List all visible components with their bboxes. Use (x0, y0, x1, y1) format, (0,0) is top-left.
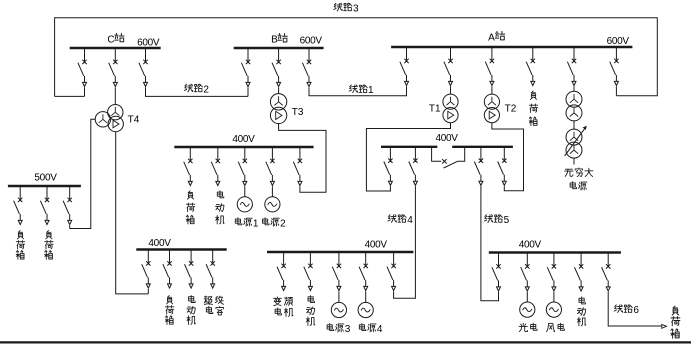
switch BM2 (304, 252, 313, 291)
bus 400V A-station right section (452, 146, 513, 148)
label line-6 (xianlu6) (614, 305, 622, 313)
svg-text:2: 2 (203, 84, 209, 95)
switch A6 (610, 47, 619, 86)
switch BL3 (185, 250, 194, 289)
svg-text:3: 3 (345, 324, 351, 335)
switch BM4 (359, 252, 368, 291)
label fuhexiang under F1 (17, 231, 23, 239)
switch M4 (266, 147, 275, 186)
switch C2 (109, 48, 118, 87)
wire BR2 to PV source (526, 292, 528, 302)
label chaoji-dianrong (supercapacitor) under BL4 (204, 296, 212, 304)
svg-text:1: 1 (253, 218, 259, 229)
svg-text:400V: 400V (232, 134, 255, 145)
switch BM1 (277, 252, 286, 291)
AC source dianyuan4 (358, 302, 373, 317)
label fuhexiang under BL2 (167, 296, 173, 304)
regulation arrow across infinite-source circles (565, 128, 586, 156)
wire BL1 to T4 (147, 289, 149, 294)
wire line-6 from BR5 (608, 292, 661, 326)
switch BL1 (142, 250, 151, 289)
wire A6 to line-3 right side (615, 86, 617, 95)
switch B3 (302, 48, 311, 87)
bus 400V bottom-right (489, 251, 621, 253)
switch BR1 (492, 253, 501, 292)
label diandongji under BM2 (308, 296, 315, 303)
label line-2 (xianlu2) (184, 84, 192, 92)
label fuhexiang under F2 (46, 231, 52, 239)
switch BR2 (521, 253, 530, 292)
wire A2 to T1 (450, 86, 452, 94)
switch BM5 (387, 252, 396, 291)
AC source dianyuan1 (237, 197, 252, 212)
wire T4 left winding to 500V bus switch F3 (70, 119, 96, 228)
AC source guangdian (PV) (520, 302, 535, 317)
bottom border rule (0, 341, 691, 343)
wire line-2 C station to B station (146, 87, 249, 96)
label fengdian (547, 324, 555, 332)
svg-text:6: 6 (633, 305, 639, 316)
switch A1 (400, 47, 409, 86)
wire line-1 B station to A station (309, 86, 407, 95)
label dianyuan4 (359, 324, 366, 331)
switch M3 (238, 147, 247, 186)
svg-text:4: 4 (377, 324, 383, 335)
wire T1 to AL1 (366, 123, 450, 191)
wire C1 to line-3 (84, 87, 86, 96)
svg-text:400V: 400V (365, 240, 388, 251)
svg-text:600V: 600V (300, 35, 323, 46)
switch AL2 (line-4 feeder) (409, 147, 418, 186)
switch AL1 (384, 147, 393, 186)
label line-4 (xianlu4) (388, 215, 396, 223)
switch B1 (241, 48, 250, 87)
switch M5 (293, 147, 302, 186)
wire A3 to T2 (491, 86, 493, 94)
transformer T2 (484, 94, 499, 123)
switch F2 (40, 186, 49, 225)
svg-text:400V: 400V (519, 239, 542, 250)
svg-text:A: A (488, 32, 495, 43)
bus A station 600V (391, 46, 632, 49)
bus 400V A-station left section (381, 146, 437, 148)
svg-text:T4: T4 (128, 115, 140, 126)
AC source fengdian (wind) (546, 302, 561, 317)
label dianyuan2 (262, 218, 269, 225)
label dianyuan3 (327, 324, 334, 331)
wire T3 to 400V middle bus switch M5 (279, 123, 326, 192)
svg-text:1: 1 (368, 85, 374, 96)
bus C station 600V (70, 47, 161, 50)
transformer T3 (270, 94, 286, 124)
svg-text:T3: T3 (292, 107, 304, 118)
svg-text:500V: 500V (34, 172, 57, 183)
svg-text:T1: T1 (429, 103, 441, 114)
bus tie switch (horizontal) (432, 148, 442, 161)
bus 400V middle (174, 146, 313, 148)
label wuqiongda (infinite) (565, 169, 573, 176)
label line-1 (xianlu1) (349, 85, 357, 93)
switch M1 (184, 147, 193, 186)
wire line-3 top run from C station to A station (55, 18, 658, 97)
switch A3 (485, 47, 494, 86)
label dianyuan1 (235, 218, 242, 225)
svg-text:400V: 400V (436, 133, 459, 144)
switch M2 (211, 147, 220, 186)
switch C3 (139, 48, 148, 87)
svg-text:400V: 400V (148, 238, 171, 249)
arrow line-6 end (662, 324, 667, 328)
label diandongji under BR4 (579, 297, 586, 304)
switch A2 (444, 47, 453, 86)
switch BR4 (575, 253, 584, 292)
svg-text:600V: 600V (137, 37, 160, 48)
svg-text:4: 4 (407, 215, 413, 226)
svg-text:C: C (107, 34, 114, 45)
switch BR5 (602, 253, 611, 292)
wire F3 to T4 left winding (69, 225, 71, 228)
transformer T1 (443, 94, 458, 123)
wire M4 to source-2 (271, 186, 273, 197)
svg-text:3: 3 (353, 3, 359, 14)
bus 500V (8, 185, 81, 187)
wire BR3 to wind source (553, 292, 555, 302)
svg-text:5: 5 (504, 215, 510, 226)
label line-5 (xianlu5) (484, 215, 492, 223)
wire T2 to AR2 (492, 123, 524, 191)
infinite source transformer stack (566, 91, 582, 107)
label dianyuan (source) (570, 182, 577, 189)
switch A4 (526, 47, 535, 86)
label fuhexiang (line-6 load) (672, 306, 679, 315)
switch A5 (567, 47, 576, 86)
wire BM4 to source-4 (365, 291, 367, 302)
svg-text:T2: T2 (505, 103, 517, 114)
AC source dianyuan2 (265, 197, 280, 212)
switch BM3 (332, 252, 341, 291)
wire B2 to T3 (278, 87, 280, 93)
switch BL2 (163, 250, 172, 289)
svg-text:600V: 600V (607, 36, 630, 47)
bus B station 600V (234, 47, 324, 50)
label diandongji under BL3 (189, 295, 196, 302)
bus 400V bottom-middle (267, 251, 413, 253)
label diandongji (motor) under M2 (217, 191, 224, 198)
label fuhexiang (load box) under M1 (187, 191, 193, 199)
switch AR2 (498, 147, 507, 186)
switch F3 (63, 186, 72, 225)
label bianpin-dianji (VFD motor) under BM1 (273, 297, 281, 306)
svg-text:B: B (271, 35, 278, 46)
wire M3 to source-1 (244, 186, 246, 197)
bus 400V bottom-left (136, 248, 226, 250)
label line-3 (xianlu3) (334, 3, 342, 11)
switch C1 (78, 48, 87, 87)
label fuhexiang under A4 (530, 91, 536, 99)
transformer T4 three-winding (95, 105, 123, 132)
label guangdian (519, 323, 527, 331)
switch F1 (14, 186, 23, 225)
wire T4 bottom winding to 400V bus (bottom-left) (116, 132, 149, 294)
switch BL4 (206, 250, 215, 289)
svg-text:2: 2 (280, 218, 286, 229)
wire line-5 down to bottom-right 400V bus (481, 186, 499, 301)
switch B2 (272, 48, 281, 87)
wire A5 to infinite source (573, 86, 575, 91)
switch AR1 (line-5 feeder) (474, 147, 483, 186)
AC source dianyuan3 (331, 302, 346, 317)
wire line-4 down to bottom-middle 400V bus (394, 186, 416, 298)
wire C2 to T4 (114, 87, 116, 104)
switch BR3 (547, 253, 556, 292)
wire BM3 to source-3 (338, 291, 340, 302)
